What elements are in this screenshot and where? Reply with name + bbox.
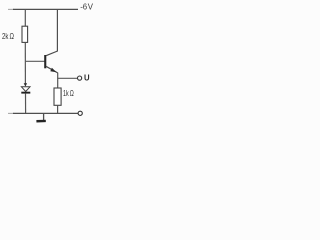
svg-text:1k Ω: 1k Ω [63, 89, 74, 98]
node: base junction / wire: base wire to Q1 [25, 60, 44, 62]
resistor R2 body [54, 88, 61, 105]
diode D1 current arrow on wire [24, 83, 27, 86]
wire: R2 bottom to bottom rail [57, 105, 59, 113]
wire: top supply rail [8, 8, 78, 10]
wire: rail down to R1 [24, 9, 26, 26]
svg-text:U: U [84, 74, 90, 83]
wire: R1 bottom down to diode (through base node) [24, 42, 26, 83]
diode D1 cathode bar [21, 92, 30, 94]
diode D1 anode triangle [21, 87, 30, 92]
transistor Q1 emitter arrow [50, 68, 56, 73]
terminal: bottom circle [78, 111, 82, 115]
svg-text:-6 V: -6 V [80, 3, 93, 12]
transistor Q1 base bar [44, 55, 46, 68]
wire: collector up to rail [56, 9, 58, 51]
ground bar [36, 120, 45, 123]
terminal: output circle [78, 76, 82, 80]
wire: emitter down to output node and R2 [57, 73, 59, 89]
wire: bottom rail [8, 112, 78, 114]
resistor R1 body [22, 26, 28, 42]
transistor Q1 collector lead (diagonal) [46, 51, 58, 56]
wire: diode down to bottom rail [25, 94, 27, 114]
svg-text:2k Ω: 2k Ω [2, 32, 14, 41]
transistor Q1 emitter lead (diagonal) [46, 66, 58, 73]
ground stub wire [43, 113, 45, 120]
wire: output wire to terminal U [57, 77, 77, 79]
